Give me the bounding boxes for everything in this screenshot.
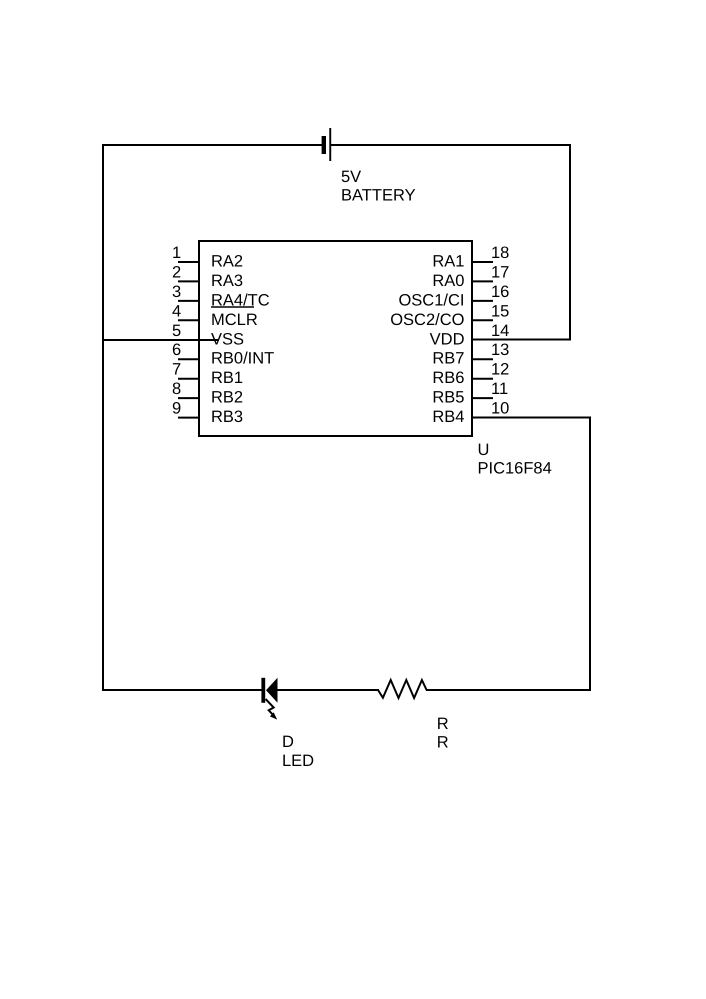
svg-text:RB5: RB5: [432, 389, 464, 407]
svg-text:9: 9: [172, 400, 181, 418]
svg-text:17: 17: [491, 263, 509, 281]
svg-text:4: 4: [172, 302, 181, 320]
wire right rail battery to VDD: [569, 144, 571, 341]
pin 3 stub: [178, 300, 199, 302]
pin 17 stub: [472, 280, 493, 282]
svg-text:3: 3: [172, 283, 181, 301]
svg-text:RA0: RA0: [432, 272, 464, 290]
svg-text:1: 1: [172, 244, 181, 262]
svg-text:RB4: RB4: [432, 408, 464, 426]
svg-text:VSS: VSS: [211, 330, 244, 348]
MCLR overline: [211, 306, 254, 308]
svg-text:RB3: RB3: [211, 408, 243, 426]
svg-text:11: 11: [491, 380, 508, 398]
wire top-left to battery: [102, 144, 322, 146]
LED D triangle: [266, 678, 278, 703]
svg-text:7: 7: [172, 361, 181, 379]
svg-text:U: U: [478, 441, 490, 459]
svg-text:RB6: RB6: [432, 369, 464, 387]
battery BT1: [322, 128, 332, 161]
svg-text:10: 10: [491, 400, 509, 418]
pin 12 stub: [472, 378, 493, 380]
svg-text:6: 6: [172, 341, 181, 359]
svg-text:5: 5: [172, 322, 181, 340]
svg-text:2: 2: [172, 263, 181, 281]
LED D emission arrow: [266, 699, 278, 720]
pin 9 stub: [178, 417, 199, 419]
svg-text:16: 16: [491, 283, 509, 301]
svg-text:MCLR: MCLR: [211, 311, 258, 329]
svg-text:VDD: VDD: [430, 330, 465, 348]
pin 13 stub: [472, 358, 493, 360]
svg-text:15: 15: [491, 302, 509, 320]
pin 18 stub: [472, 261, 493, 263]
svg-text:5V: 5V: [341, 168, 361, 186]
svg-text:RB0/INT: RB0/INT: [211, 350, 274, 368]
svg-text:RB7: RB7: [432, 350, 464, 368]
pin 15 stub: [472, 319, 493, 321]
wire bottom resistor to right rail: [426, 689, 591, 691]
svg-text:RB2: RB2: [211, 389, 243, 407]
wire right rail RB4 down: [589, 417, 591, 692]
wire bottom left segment: [102, 689, 262, 691]
wire left rail: [102, 144, 104, 691]
pin 11 stub: [472, 397, 493, 399]
LED D cathode bar: [261, 678, 265, 703]
IC U1 PIC16F84 body: [199, 241, 472, 436]
wire bottom LED to resistor: [277, 689, 379, 691]
wire VDD pin14 to right rail: [472, 339, 571, 341]
svg-text:12: 12: [491, 361, 509, 379]
svg-text:RA3: RA3: [211, 272, 243, 290]
svg-text:18: 18: [491, 244, 509, 262]
svg-text:OSC1/CI: OSC1/CI: [398, 291, 464, 309]
svg-text:PIC16F84: PIC16F84: [478, 460, 552, 478]
resistor R zigzag: [378, 680, 427, 698]
svg-text:R: R: [437, 715, 449, 733]
pin 2 stub: [178, 280, 199, 282]
svg-text:RA2: RA2: [211, 253, 243, 271]
wire battery to top-right: [331, 144, 572, 146]
svg-text:D: D: [282, 733, 294, 751]
pin 4 stub: [178, 319, 199, 321]
pin 8 stub: [178, 397, 199, 399]
svg-text:RA1: RA1: [432, 253, 464, 271]
pin 16 stub: [472, 300, 493, 302]
svg-text:14: 14: [491, 322, 509, 340]
pin 6 stub: [178, 358, 199, 360]
svg-text:8: 8: [172, 380, 181, 398]
svg-text:BATTERY: BATTERY: [341, 187, 416, 205]
svg-text:R: R: [437, 734, 449, 752]
svg-text:LED: LED: [282, 752, 314, 770]
wire VSS pin5 to left rail: [102, 339, 219, 341]
svg-text:OSC2/CO: OSC2/CO: [390, 311, 464, 329]
svg-text:13: 13: [491, 341, 509, 359]
pin 7 stub: [178, 378, 199, 380]
wire RB4 pin10 to right rail: [472, 417, 591, 419]
svg-text:RB1: RB1: [211, 369, 243, 387]
pin 1 stub: [178, 261, 199, 263]
